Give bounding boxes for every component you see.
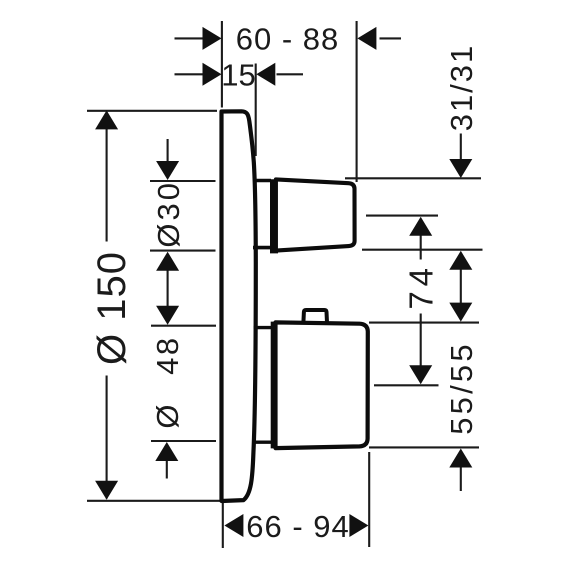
arrow 74 upper (points up) bbox=[409, 217, 432, 236]
wire: ext line Ø30 top bbox=[150, 180, 216, 182]
arrow dim 60-88 left (points right) bbox=[203, 27, 222, 50]
wire: dim line Ø150 lower bbox=[106, 376, 108, 499]
sleeve top handle (lower line) bbox=[253, 246, 271, 250]
sleeve bottom handle (upper line) bbox=[254, 326, 272, 329]
arrow dim 60-88 right (points left) bbox=[357, 27, 376, 50]
wire: ext line Ø30 bottom bbox=[150, 250, 216, 252]
wire: dim 15 right tail bbox=[277, 73, 304, 75]
wire: extension line handle front "60-88" bbox=[356, 21, 358, 182]
wire: ext line E top-handle axis bbox=[366, 215, 438, 217]
wire: ext line A top-handle top (right) bbox=[345, 177, 481, 179]
arrow 66-94 right (points right) bbox=[349, 514, 368, 537]
wire: tail double arrow B-C bbox=[460, 269, 462, 304]
top handle body bbox=[276, 179, 355, 250]
wire: extension line plate front "15" bbox=[255, 64, 257, 157]
bottom handle end bar bbox=[271, 322, 278, 449]
arrow Ø48 bottom (points up) bbox=[155, 442, 178, 461]
svg-text:Ø 150: Ø 150 bbox=[90, 251, 134, 365]
wire: ext line B top-handle bottom (right) bbox=[362, 249, 483, 251]
wire: ext line plate top (Ø150) bbox=[87, 110, 217, 112]
wire: dim 15 left tail bbox=[175, 73, 203, 75]
arrow dim 15 right (points left) bbox=[256, 63, 275, 86]
arrow Ø30 bottom (points up) bbox=[156, 252, 179, 271]
svg-text:Ø 48: Ø 48 bbox=[150, 335, 185, 428]
wire: ext line F bottom-handle axis bbox=[374, 384, 439, 386]
svg-text:15: 15 bbox=[221, 58, 255, 93]
wire: tail between Ø30 and Ø48 arrows bbox=[167, 269, 169, 308]
bottom handle body bbox=[276, 322, 368, 448]
escutcheon plate (side view) bbox=[222, 111, 256, 501]
arrow Ø30 top (points down) bbox=[156, 161, 179, 180]
wire: dim 60-88 right tail bbox=[380, 37, 402, 39]
arrow 66-94 left (points left) bbox=[224, 514, 243, 537]
svg-text:Ø30: Ø30 bbox=[151, 180, 186, 248]
arrow Ø150 bottom (points down) bbox=[95, 481, 118, 500]
arrow 74 lower (points down) bbox=[409, 365, 432, 384]
wire: Ø48 bottom arrow tail bbox=[166, 460, 168, 479]
wire: dim 74 upper tail bbox=[420, 235, 422, 260]
wire: dim 31/31 tail bbox=[460, 134, 462, 162]
arrow Ø48 top (points down) bbox=[156, 306, 179, 325]
arrow 31/31 (points down) bbox=[449, 159, 472, 178]
wire: ext line Ø48 top bbox=[151, 325, 216, 327]
wire: dim 74 lower tail bbox=[420, 314, 422, 367]
top handle end bar bbox=[270, 179, 278, 253]
wire: extension line wall face (top) bbox=[221, 21, 223, 108]
svg-text:31/31: 31/31 bbox=[444, 44, 479, 132]
arrow double B (points up) bbox=[449, 251, 472, 270]
sleeve bottom handle (lower line) bbox=[254, 441, 272, 444]
wire: dim line Ø150 upper bbox=[106, 112, 108, 242]
wire: ext line 66-94 right bbox=[368, 452, 370, 547]
arrow double C (points down) bbox=[449, 303, 472, 322]
wire: ext line plate bottom (Ø150) bbox=[87, 500, 220, 502]
wire: ext line 66-94 left bbox=[222, 503, 224, 548]
wire: tail below D bbox=[460, 467, 462, 492]
svg-text:55/55: 55/55 bbox=[444, 341, 479, 435]
wire: ext line C bottom-handle top (right) bbox=[369, 322, 479, 324]
wire: ext line D bottom-handle bottom (right) bbox=[369, 446, 479, 448]
wire: Ø30 top arrow tail bbox=[167, 139, 169, 162]
svg-text:60 - 88: 60 - 88 bbox=[236, 22, 340, 57]
knob tab on bottom handle bbox=[303, 310, 327, 323]
wire: ext line Ø48 bottom bbox=[151, 440, 216, 442]
sleeve top handle (upper line) bbox=[253, 179, 271, 183]
arrow dim 15 left (points right) bbox=[203, 63, 222, 86]
svg-text:74: 74 bbox=[403, 263, 440, 310]
arrow below D (points up) bbox=[449, 449, 472, 468]
wire: dim 60-88 left tail bbox=[175, 37, 203, 39]
arrow Ø150 top (points up) bbox=[95, 110, 118, 129]
svg-text:66 - 94: 66 - 94 bbox=[246, 509, 350, 544]
